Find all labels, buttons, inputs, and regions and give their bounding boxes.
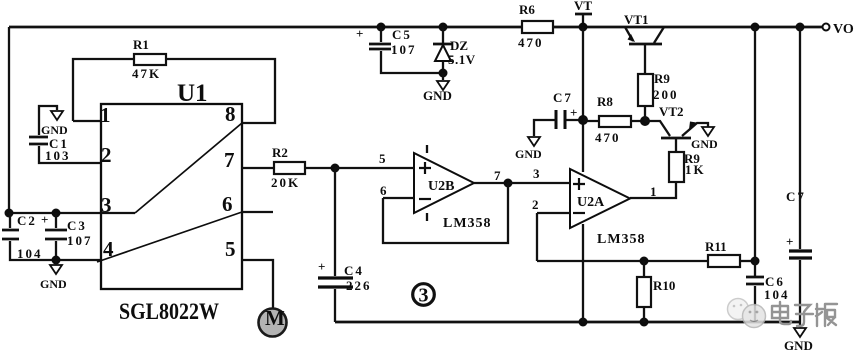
svg-text:7: 7 bbox=[224, 148, 235, 172]
resistor R9 (200) bbox=[638, 71, 679, 121]
svg-text:U2B: U2B bbox=[428, 179, 454, 194]
svg-text:2: 2 bbox=[532, 197, 539, 212]
svg-text:R1: R1 bbox=[133, 37, 149, 52]
svg-text:200: 200 bbox=[653, 87, 679, 102]
svg-text:GND: GND bbox=[784, 338, 813, 352]
node G (R8/R9/VT2 base) bbox=[640, 116, 650, 126]
ground (output) bbox=[784, 322, 813, 352]
svg-text:107: 107 bbox=[67, 233, 93, 248]
svg-text:2: 2 bbox=[101, 143, 112, 167]
wire internal diagonal 1 bbox=[135, 123, 242, 213]
svg-text:103: 103 bbox=[45, 148, 71, 163]
resistor R6 bbox=[518, 2, 553, 50]
svg-text:5: 5 bbox=[379, 151, 386, 166]
svg-text:R6: R6 bbox=[519, 2, 535, 17]
svg-text:VO: VO bbox=[833, 22, 854, 37]
node C (C3 bottom / pin4 wire) bbox=[52, 256, 61, 265]
svg-text:GND: GND bbox=[691, 137, 718, 151]
wire pin3 row bbox=[9, 212, 101, 214]
svg-text:DZ: DZ bbox=[450, 38, 468, 53]
wire feedback row bbox=[537, 260, 708, 262]
capacitor C7 (output) bbox=[786, 27, 812, 322]
node H (U2B out) bbox=[504, 179, 513, 188]
capacitor C1 bbox=[29, 106, 101, 163]
node J (R11/C6) bbox=[751, 257, 760, 266]
svg-text:+: + bbox=[318, 259, 325, 274]
svg-text:+: + bbox=[570, 105, 577, 120]
wire U2A V- to bottom rail bbox=[582, 224, 584, 322]
node D (R2 / U2B+ / C4) bbox=[331, 164, 340, 173]
wire U2B -in (pin 6) bbox=[383, 197, 414, 199]
wire pin5 to motor bbox=[242, 260, 273, 309]
capacitor C3 bbox=[45, 213, 93, 260]
svg-text:M: M bbox=[265, 306, 285, 330]
svg-text:SGL8022W: SGL8022W bbox=[119, 299, 219, 324]
node dot C5/rail bbox=[377, 23, 386, 32]
node dot rail/C7 branch bbox=[796, 23, 805, 32]
svg-text:GND: GND bbox=[423, 88, 452, 103]
wire U2B output (pin 7) bbox=[474, 182, 508, 184]
resistor R11 bbox=[705, 239, 755, 267]
svg-text:GND: GND bbox=[40, 277, 67, 291]
svg-text:3: 3 bbox=[419, 285, 429, 307]
resistor R9 (1K) bbox=[630, 151, 706, 198]
node dot bottom/R10 bbox=[640, 318, 649, 327]
svg-text:U2A: U2A bbox=[577, 195, 605, 210]
svg-text:107: 107 bbox=[391, 42, 417, 57]
wire bottom rail bbox=[335, 321, 801, 324]
svg-text:1: 1 bbox=[650, 184, 657, 199]
node F (C7/R8 junction) bbox=[578, 115, 588, 125]
capacitor C2 bbox=[2, 212, 101, 261]
svg-text:R8: R8 bbox=[597, 94, 613, 109]
op-amp U2B bbox=[414, 145, 492, 231]
wire U2A -in (pin 2) bbox=[537, 212, 570, 214]
terminal VT bbox=[574, 0, 592, 27]
svg-text:3: 3 bbox=[533, 166, 540, 181]
svg-text:LM358: LM358 bbox=[443, 216, 492, 231]
transistor VT1 bbox=[624, 12, 664, 74]
node dot rail/R11 branch bbox=[751, 23, 760, 32]
svg-text:GND: GND bbox=[41, 123, 68, 137]
node I (R10/R11 junction) bbox=[640, 257, 649, 266]
wire top supply rail bbox=[9, 26, 822, 29]
resistor R2 bbox=[242, 145, 335, 190]
wire left vertical rail bbox=[8, 27, 10, 213]
resistor R10 bbox=[637, 261, 675, 322]
wire U2A feedback drop bbox=[536, 213, 538, 261]
node E (C5/DZ ground) bbox=[439, 69, 448, 78]
circled 3 figure number bbox=[413, 284, 435, 307]
svg-text:1K: 1K bbox=[685, 162, 706, 177]
svg-text:6: 6 bbox=[222, 192, 233, 216]
ground (C7 input) bbox=[515, 137, 542, 161]
svg-text:7: 7 bbox=[494, 168, 501, 183]
node B (C3 top) bbox=[52, 209, 61, 218]
svg-text:R2: R2 bbox=[272, 145, 288, 160]
svg-text:LM358: LM358 bbox=[597, 232, 646, 247]
ground (DZ) bbox=[423, 73, 452, 103]
op-amp U1 SGL8022W body bbox=[101, 80, 242, 324]
ground (C1) bbox=[41, 111, 68, 137]
capacitor C5 bbox=[356, 26, 443, 73]
svg-text:C5: C5 bbox=[392, 27, 412, 42]
zener diode DZ 5.1V bbox=[433, 27, 476, 73]
resistor R8 bbox=[583, 94, 645, 145]
svg-text:R11: R11 bbox=[705, 239, 727, 254]
watermark stamp circles bbox=[728, 299, 766, 328]
watermark text 电子报 bbox=[772, 302, 837, 326]
svg-text:VT2: VT2 bbox=[659, 104, 684, 119]
svg-text:6: 6 bbox=[380, 183, 387, 198]
motor M bbox=[259, 306, 287, 337]
svg-text:470: 470 bbox=[595, 130, 621, 145]
node dot DZ/rail bbox=[439, 23, 448, 32]
node dot bottom/U2A V- bbox=[579, 318, 588, 327]
svg-text:+: + bbox=[356, 26, 363, 41]
svg-text:C2: C2 bbox=[17, 213, 37, 228]
capacitor C6 bbox=[746, 27, 790, 322]
svg-text:104: 104 bbox=[764, 287, 790, 302]
node dot VT/rail bbox=[579, 23, 588, 32]
wire internal diagonal 2 bbox=[97, 212, 242, 262]
svg-text:5: 5 bbox=[225, 237, 236, 261]
svg-text:VT: VT bbox=[574, 0, 592, 13]
svg-text:C3: C3 bbox=[67, 218, 87, 233]
svg-text:470: 470 bbox=[518, 35, 544, 50]
wire pin6 stub bbox=[242, 211, 273, 213]
terminal VO bbox=[823, 22, 854, 37]
capacitor C4 bbox=[318, 168, 372, 322]
svg-text:+: + bbox=[786, 234, 793, 249]
svg-text:C4: C4 bbox=[344, 263, 364, 278]
transistor VT2 bbox=[645, 104, 708, 152]
wire U2B +in (pin 5) bbox=[335, 167, 414, 169]
svg-text:GND: GND bbox=[515, 147, 542, 161]
resistor R1 bbox=[73, 37, 275, 123]
ground (VT2) bbox=[691, 127, 718, 151]
wire U2A +in (pin 3) bbox=[508, 182, 570, 184]
svg-text:U1: U1 bbox=[177, 80, 208, 107]
svg-text:R9: R9 bbox=[654, 71, 670, 86]
svg-text:R10: R10 bbox=[653, 278, 675, 293]
wire VT vertical feed bbox=[582, 27, 584, 172]
op-amp U2A bbox=[570, 169, 646, 247]
svg-text:C7: C7 bbox=[786, 189, 806, 204]
svg-text:1: 1 bbox=[100, 103, 111, 127]
svg-text:VT1: VT1 bbox=[624, 12, 649, 27]
svg-text:20K: 20K bbox=[271, 175, 300, 190]
svg-text:47K: 47K bbox=[132, 66, 161, 81]
capacitor C7 (input filter) bbox=[534, 90, 583, 136]
svg-text:226: 226 bbox=[346, 278, 372, 293]
svg-text:C7: C7 bbox=[553, 90, 573, 105]
ground (C2/C3) bbox=[40, 260, 67, 291]
wire pin3 internal stub bbox=[101, 212, 135, 214]
svg-text:+: + bbox=[41, 212, 48, 227]
svg-text:5.1V: 5.1V bbox=[448, 52, 476, 67]
svg-text:8: 8 bbox=[225, 102, 236, 126]
svg-text:104: 104 bbox=[17, 246, 43, 261]
node A (left rail / pin3) bbox=[5, 209, 14, 218]
wire U2B feedback loop bbox=[383, 183, 508, 243]
